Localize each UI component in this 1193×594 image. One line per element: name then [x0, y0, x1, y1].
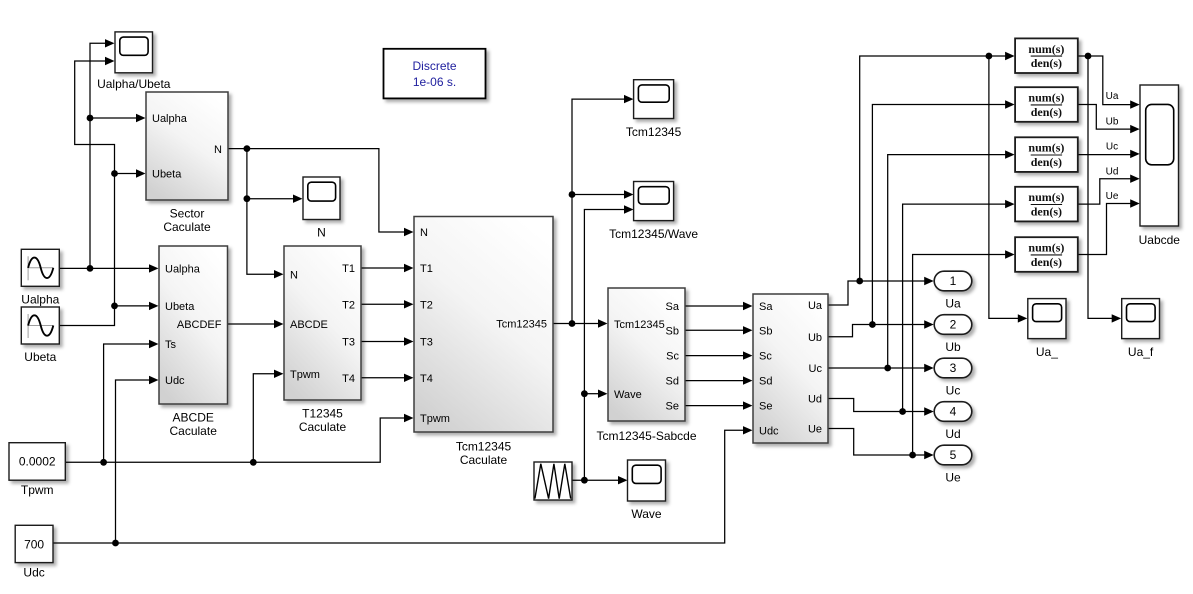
junction dot TF1 input branch [986, 53, 993, 60]
wire N branch to scope N and T12345 N input [247, 149, 303, 279]
svg-text:Udc: Udc [23, 566, 44, 580]
scope Wave [628, 460, 666, 521]
transfer fcn num(s)/den(s) #3 [1015, 137, 1078, 172]
wire Sd output to Sabcde-U block input [685, 376, 753, 384]
junction dot Wave-Sabcde branch [581, 390, 588, 397]
svg-text:Tcm12345/Wave: Tcm12345/Wave [609, 227, 698, 241]
repeating sequence source Wave [534, 462, 572, 500]
subsystem Tcm12345 Caculate [414, 217, 553, 468]
transfer fcn num(s)/den(s) #1 [1015, 38, 1078, 73]
svg-text:Ud: Ud [1106, 166, 1119, 177]
svg-text:4: 4 [950, 405, 957, 419]
subsystem Sector Caculate [146, 92, 228, 234]
svg-text:Tpwm: Tpwm [290, 369, 320, 381]
svg-text:Ua: Ua [808, 300, 823, 312]
svg-text:T1: T1 [420, 263, 433, 275]
svg-text:Wave: Wave [614, 389, 642, 401]
wire Ualpha branch vertical to scope and Sector [90, 39, 146, 268]
svg-text:2: 2 [950, 318, 957, 332]
svg-text:Caculate: Caculate [163, 220, 211, 234]
wire Udc constant 700 to Sabcde-U block Udc input [53, 426, 753, 543]
junction dot Ualpha wire [87, 265, 94, 272]
svg-text:Ua: Ua [945, 297, 961, 311]
outport 2 Ub [934, 315, 972, 354]
svg-text:num(s): num(s) [1028, 91, 1064, 105]
wire Sa output to Sabcde-U block input [685, 302, 753, 310]
scope Uabcde [1139, 85, 1181, 247]
wire Sc output to Sabcde-U block input [685, 351, 753, 359]
svg-text:1e-06 s.: 1e-06 s. [413, 75, 456, 89]
junction dot N-scope branch [244, 195, 251, 202]
svg-text:Sb: Sb [666, 325, 679, 337]
junction dot Wave wire [581, 477, 588, 484]
wire Tcm12345 branch vertical to scopes [572, 95, 634, 324]
svg-text:Udc: Udc [165, 375, 185, 387]
svg-text:N: N [290, 269, 298, 281]
wire branch TF1 input to Ua_ scope [989, 56, 1027, 323]
wire Tpwm constant to Tcm12345 Tpwm input [65, 414, 413, 463]
wire T1 output to Tcm12345 input [361, 264, 414, 272]
svg-text:Sb: Sb [759, 325, 772, 337]
svg-text:Ud: Ud [808, 394, 822, 406]
svg-text:Ubeta: Ubeta [165, 301, 195, 313]
svg-text:0.0002: 0.0002 [19, 455, 56, 469]
svg-text:Ue: Ue [945, 471, 961, 485]
scope Ua_ [1028, 299, 1066, 359]
svg-text:Ubeta: Ubeta [24, 350, 56, 364]
junction dot Tcm output wire [569, 320, 576, 327]
svg-text:N: N [214, 144, 222, 156]
svg-text:T3: T3 [342, 337, 355, 349]
svg-text:Ualpha: Ualpha [152, 113, 188, 125]
svg-text:den(s): den(s) [1031, 56, 1062, 70]
svg-text:Ub: Ub [1106, 117, 1119, 128]
svg-text:Udc: Udc [759, 425, 779, 437]
svg-text:Caculate: Caculate [170, 424, 218, 438]
svg-text:Uabcde: Uabcde [1139, 233, 1181, 247]
svg-text:Uc: Uc [1106, 142, 1118, 153]
svg-text:Sa: Sa [759, 301, 773, 313]
junction dot Tpwm-Ts branch [100, 459, 107, 466]
junction dot Ubeta wire [111, 303, 118, 310]
outport 1 Ua [934, 271, 972, 310]
svg-text:num(s): num(s) [1028, 42, 1064, 56]
svg-text:Ualpha: Ualpha [21, 293, 59, 307]
wire Uc output to outport and transfer fcn [828, 150, 1015, 372]
svg-text:Se: Se [759, 401, 772, 413]
svg-text:den(s): den(s) [1031, 155, 1062, 169]
svg-text:N: N [420, 227, 428, 239]
svg-text:1: 1 [950, 274, 957, 288]
svg-text:Ue: Ue [808, 424, 822, 436]
sine wave source Ubeta [21, 307, 59, 364]
svg-text:Sd: Sd [666, 376, 679, 388]
outport 5 Ue [934, 445, 972, 484]
svg-text:T4: T4 [342, 373, 355, 385]
constant Tpwm 0.0002 [9, 443, 65, 497]
wire Wave branch vertical to Tcm12345/Wave scope and Sabcde Wave input [584, 205, 633, 480]
svg-text:Ts: Ts [165, 339, 177, 351]
svg-text:Sc: Sc [666, 351, 679, 363]
svg-text:5: 5 [950, 448, 957, 462]
wire Udc branch to ABCDE Udc input [116, 376, 159, 543]
junction dot Ua port branch [856, 278, 863, 285]
svg-text:den(s): den(s) [1031, 205, 1062, 219]
svg-text:Tcm12345: Tcm12345 [456, 440, 512, 454]
svg-text:ABCDEF: ABCDEF [177, 319, 222, 331]
wire Ue output to outport and transfer fcn [828, 250, 1015, 459]
wire ABCDEF output to T12345 ABCDE input [228, 320, 284, 328]
scope Ualpha/Ubeta [97, 32, 171, 91]
svg-text:num(s): num(s) [1028, 190, 1064, 204]
svg-text:num(s): num(s) [1028, 241, 1064, 255]
sine wave source Ualpha [21, 249, 59, 306]
svg-text:Sd: Sd [759, 376, 772, 388]
svg-text:T1: T1 [342, 263, 355, 275]
wire Repeating Sequence output to Wave scope [572, 476, 628, 484]
svg-text:Tcm12345: Tcm12345 [626, 125, 682, 139]
svg-text:Uc: Uc [809, 363, 823, 375]
svg-text:Caculate: Caculate [460, 453, 508, 467]
wire Ubeta branch vertical to scope and Sector [75, 57, 146, 306]
svg-text:T4: T4 [420, 373, 433, 385]
wire transfer fcn 2 output to Uabcde scope input [1078, 105, 1140, 134]
svg-text:Se: Se [666, 401, 679, 413]
svg-text:Ub: Ub [945, 340, 961, 354]
svg-text:Wave: Wave [631, 507, 662, 521]
subsystem Tcm12345-Sabcde [596, 288, 696, 443]
junction dot Ualpha-Sector branch [87, 115, 94, 122]
svg-text:Uc: Uc [946, 384, 961, 398]
subsystem Sabcde to Uabcde converter [753, 294, 828, 443]
svg-text:Ubeta: Ubeta [152, 169, 182, 181]
svg-text:700: 700 [24, 537, 44, 551]
svg-text:Ue: Ue [1106, 191, 1119, 202]
wire Ub output to outport and transfer fcn [828, 100, 1015, 336]
junction dot Ubeta-Sector branch [111, 170, 118, 177]
svg-text:Caculate: Caculate [299, 420, 347, 434]
outport 4 Ud [934, 402, 972, 441]
wire Ts branch to ABCDE Ts input [104, 340, 159, 463]
svg-text:Tpwm: Tpwm [21, 483, 54, 497]
svg-text:Sa: Sa [666, 301, 680, 313]
wire transfer fcn 3 output to Uabcde scope input [1078, 150, 1140, 158]
wire transfer fcn 4 output to Uabcde scope input [1078, 175, 1140, 205]
scope Tcm12345/Wave [609, 182, 698, 242]
svg-text:Tcm12345: Tcm12345 [614, 319, 665, 331]
scope Ua_f [1122, 299, 1160, 359]
constant Udc 700 [15, 525, 53, 579]
annotation Discrete 1e-06 s. [384, 49, 486, 99]
svg-text:Sector: Sector [170, 207, 205, 221]
wire T4 output to Tcm12345 input [361, 374, 414, 382]
wire Ualpha sine output to ABCDE Caculate input [59, 264, 158, 272]
junction dot Udc branch [112, 540, 119, 547]
junction dot TF1 output branch [1085, 53, 1092, 60]
wire Ud output to outport and transfer fcn [828, 200, 1015, 416]
wire Ua output to outport and transfer fcn [828, 52, 1015, 305]
svg-text:N: N [317, 226, 326, 240]
wire branch TF1 output to Ua_f scope [1088, 56, 1121, 323]
junction dot Uc port branch [884, 365, 891, 372]
junction dot Ud port branch [899, 408, 906, 415]
junction dot Tpwm-T12345 branch [250, 459, 257, 466]
svg-text:Ualpha/Ubeta: Ualpha/Ubeta [97, 77, 171, 91]
svg-text:Ualpha: Ualpha [165, 263, 201, 275]
svg-text:Sc: Sc [759, 351, 772, 363]
junction dot N wire [244, 145, 251, 152]
junction dot Ub port branch [869, 321, 876, 328]
svg-text:num(s): num(s) [1028, 141, 1064, 155]
svg-text:Discrete: Discrete [412, 59, 456, 73]
svg-text:T2: T2 [342, 299, 355, 311]
wire transfer fcn 1 output to Uabcde scope input [1078, 56, 1140, 109]
svg-text:Tcm12345-Sabcde: Tcm12345-Sabcde [596, 429, 696, 443]
wire Tpwm branch to T12345 Tpwm input [253, 370, 283, 463]
wire Sb output to Sabcde-U block input [685, 326, 753, 334]
wire transfer fcn 5 output to Uabcde scope input [1078, 199, 1140, 254]
svg-text:Tpwm: Tpwm [420, 413, 450, 425]
svg-text:Ua: Ua [1106, 91, 1119, 102]
svg-text:Tcm12345: Tcm12345 [496, 319, 547, 331]
svg-text:ABCDE: ABCDE [173, 411, 214, 425]
svg-text:T12345: T12345 [302, 407, 343, 421]
svg-text:T2: T2 [420, 299, 433, 311]
svg-text:den(s): den(s) [1031, 255, 1062, 269]
transfer fcn num(s)/den(s) #5 [1015, 237, 1078, 272]
transfer fcn num(s)/den(s) #2 [1015, 87, 1078, 122]
svg-text:Ub: Ub [808, 332, 822, 344]
outport 3 Uc [934, 358, 972, 397]
svg-text:ABCDE: ABCDE [290, 319, 328, 331]
subsystem ABCDE Caculate [159, 246, 228, 438]
subsystem T12345 Caculate [284, 246, 361, 434]
wire Ubeta sine output to ABCDE Caculate input [59, 302, 158, 326]
svg-text:Ud: Ud [945, 427, 960, 441]
svg-text:Ua_: Ua_ [1036, 345, 1058, 359]
svg-text:Ua_f: Ua_f [1128, 345, 1154, 359]
svg-text:den(s): den(s) [1031, 105, 1062, 119]
transfer fcn num(s)/den(s) #4 [1015, 187, 1078, 222]
svg-text:3: 3 [950, 361, 957, 375]
svg-text:T3: T3 [420, 337, 433, 349]
scope Tcm12345 [626, 80, 682, 139]
wire T3 output to Tcm12345 input [361, 337, 414, 345]
wire Sector N output to Tcm12345 Caculate N input [228, 149, 414, 237]
wire T2 output to Tcm12345 input [361, 300, 414, 308]
wire Tcm12345 output to Tcm12345-Sabcde input [553, 319, 608, 327]
wire Se output to Sabcde-U block input [685, 401, 753, 409]
scope N [303, 177, 340, 240]
junction dot Tcm-Wave scope branch [569, 191, 576, 198]
junction dot Ue port branch [909, 452, 916, 459]
